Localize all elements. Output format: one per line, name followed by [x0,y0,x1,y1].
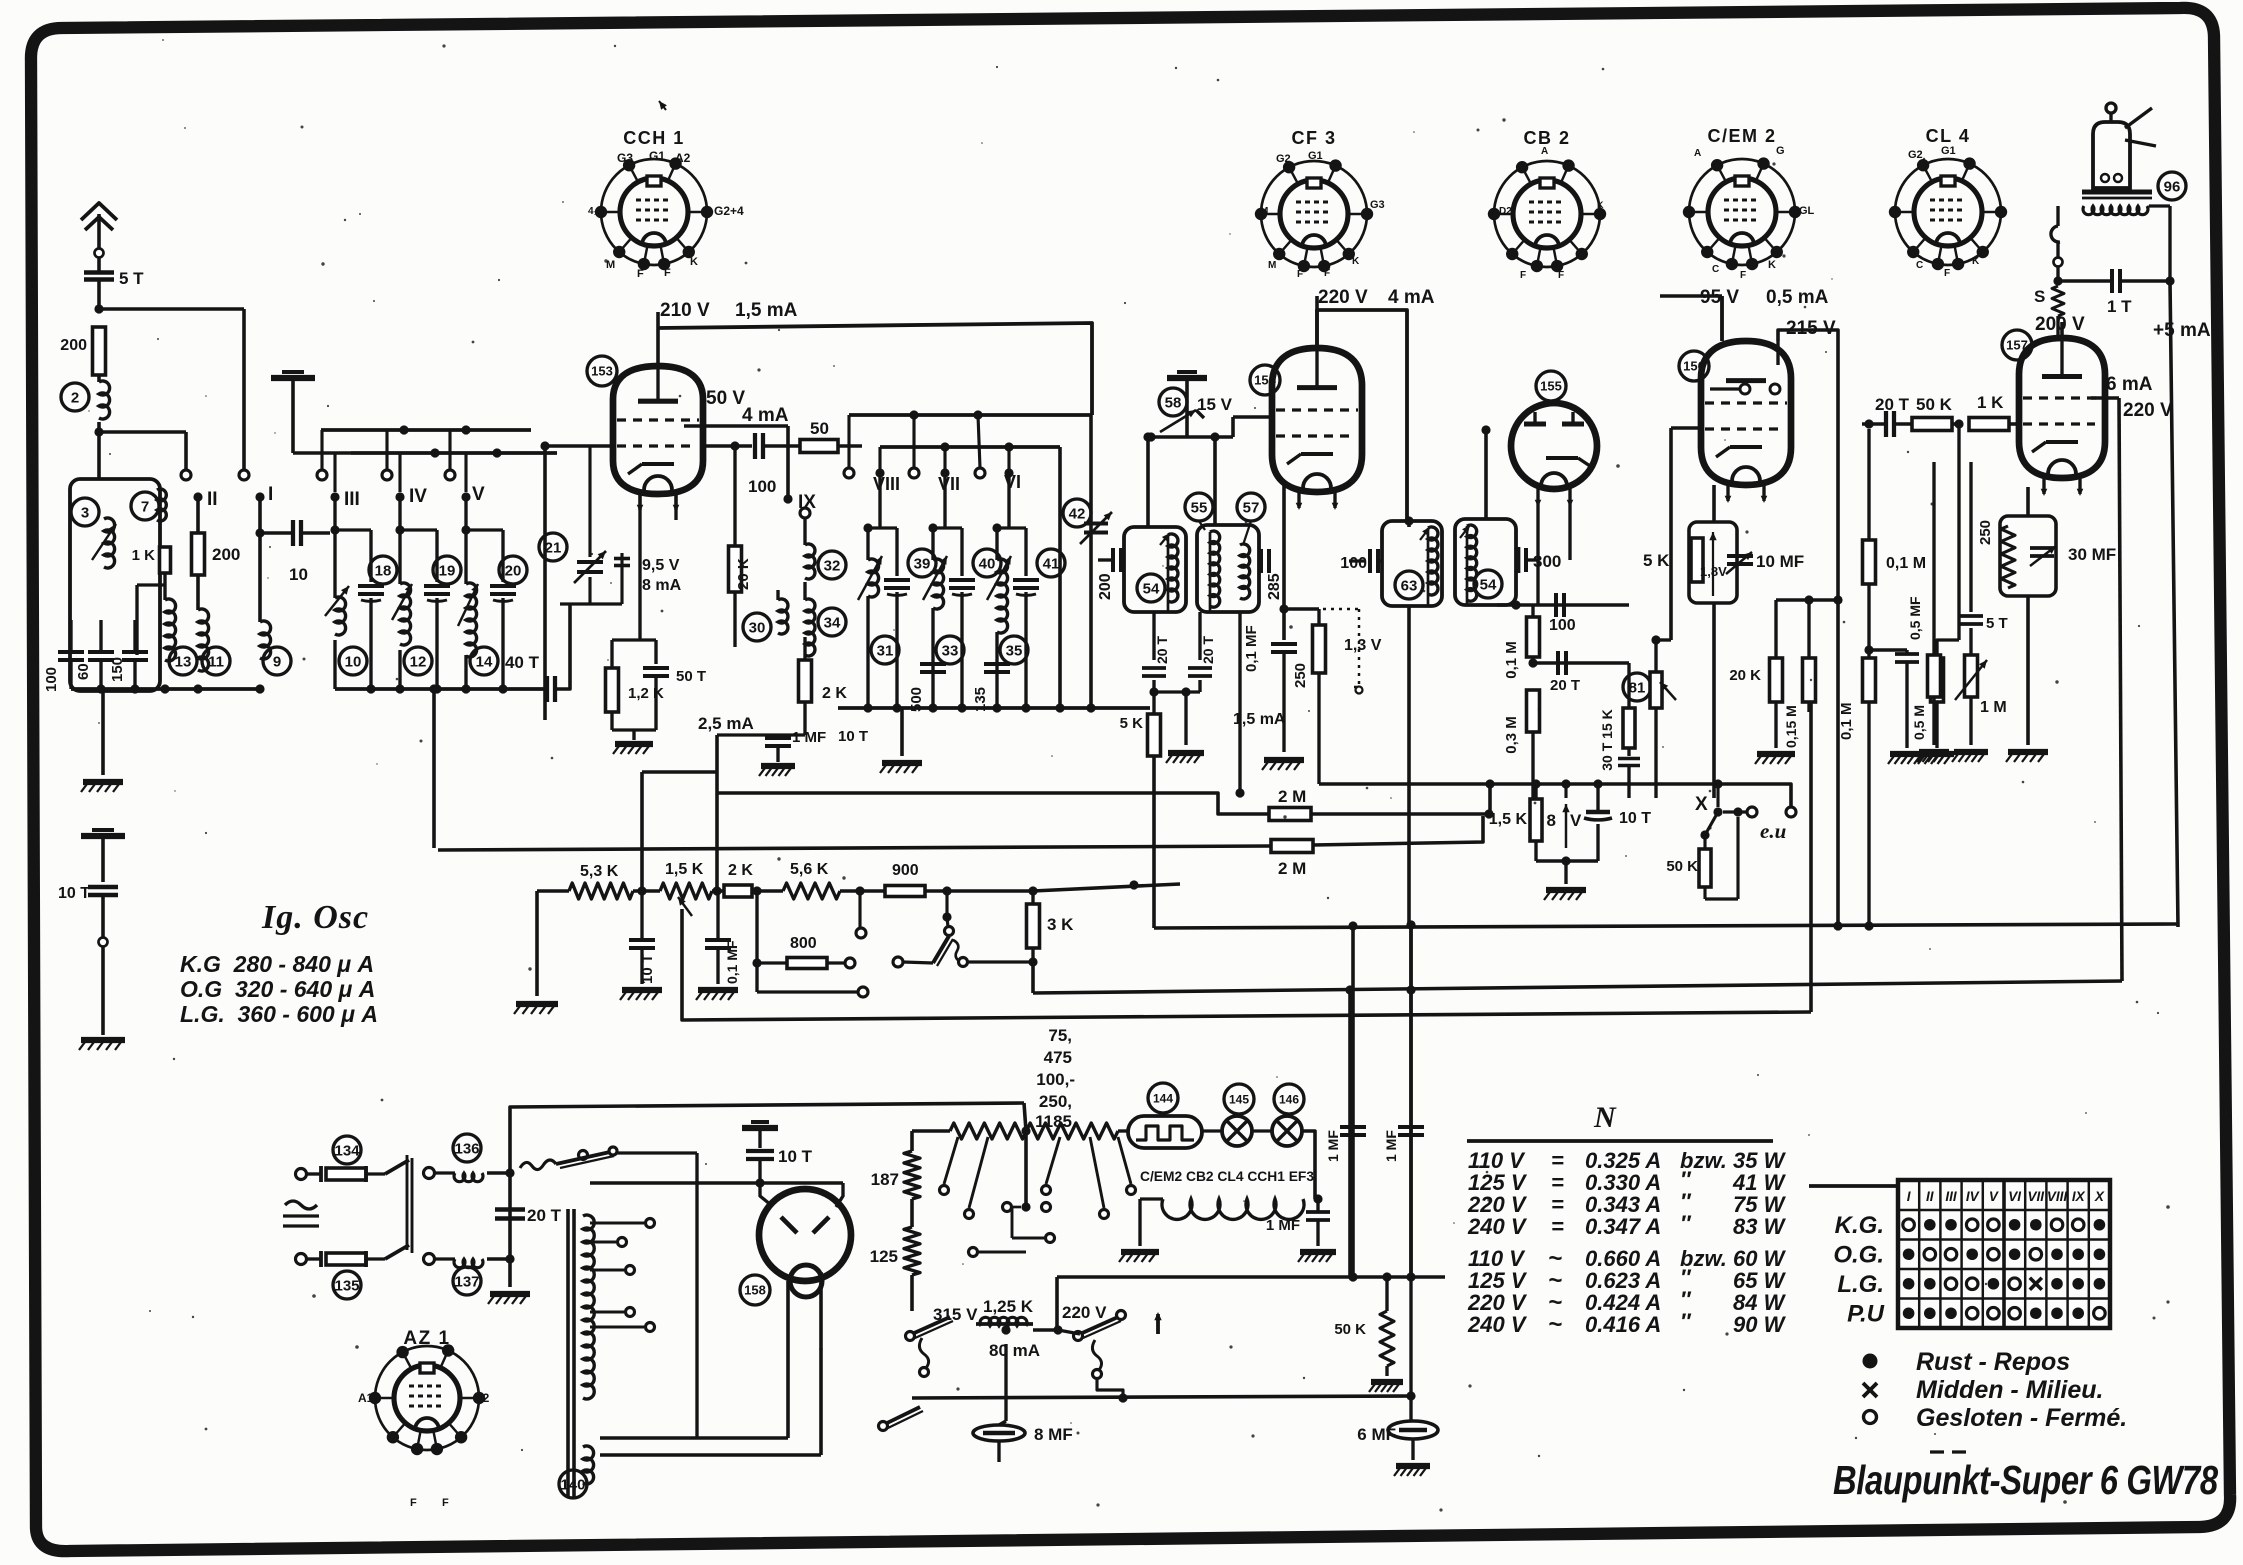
svg-text:0,1 M: 0,1 M [1503,641,1520,679]
svg-text:54: 54 [1143,580,1160,597]
svg-text:IV: IV [409,486,427,507]
svg-text:10 MF: 10 MF [1756,552,1804,571]
svg-text:F: F [637,268,644,280]
svg-text:G1: G1 [1941,145,1956,157]
svg-text:10 T: 10 T [1619,810,1651,827]
svg-text:5 K: 5 K [1643,551,1670,570]
svg-text:5 K: 5 K [1120,715,1144,732]
svg-text:33: 33 [942,642,959,659]
svg-text:A: A [1892,206,1899,216]
svg-text:M: M [1268,260,1276,271]
svg-text:F: F [1324,268,1330,279]
svg-text:K.G 280 - 840 μ A: K.G 280 - 840 μ A [180,951,374,977]
svg-text:136: 136 [454,1140,479,1157]
svg-text:42: 42 [1069,505,1086,522]
svg-text:220 V: 220 V [1318,287,1368,308]
svg-text:8 MF: 8 MF [1034,1425,1073,1444]
svg-text:D2: D2 [1499,206,1512,217]
svg-text:81: 81 [1629,679,1646,696]
svg-text:125: 125 [870,1247,898,1266]
svg-text:50 K: 50 K [1666,858,1698,875]
svg-text:O.G.: O.G. [1833,1241,1884,1268]
svg-text:50 T: 50 T [676,668,706,685]
svg-text:285: 285 [1266,573,1283,600]
svg-text:200: 200 [212,545,240,564]
svg-text:III: III [1945,1189,1957,1204]
svg-text:20: 20 [505,562,522,579]
svg-text:80 mA: 80 mA [989,1341,1040,1360]
svg-text:10 T: 10 T [838,728,868,745]
svg-text:83 W: 83 W [1733,1214,1787,1239]
svg-text:O.G 320 - 640 μ A: O.G 320 - 640 μ A [180,976,375,1002]
svg-text:153: 153 [591,364,613,379]
svg-text:S: S [2034,287,2045,306]
svg-text:GL: GL [1799,205,1815,217]
svg-text:C: C [1916,260,1923,271]
svg-text:220 V: 220 V [2123,400,2173,421]
svg-text:54: 54 [1480,576,1497,593]
svg-text:75,: 75, [1048,1026,1072,1045]
svg-text:150: 150 [109,657,126,682]
svg-text:1,3 V: 1,3 V [1344,637,1382,654]
svg-text:VII: VII [2028,1189,2045,1204]
svg-text:0,15 M: 0,15 M [1783,705,1799,748]
svg-text:58: 58 [1165,394,1182,411]
svg-text:F: F [1944,268,1950,279]
svg-text:240 V: 240 V [1467,1214,1528,1239]
svg-text:K: K [690,256,698,268]
svg-text:15 V: 15 V [1197,395,1233,414]
svg-text:240 V: 240 V [1467,1312,1528,1337]
svg-text:11: 11 [208,653,224,670]
svg-text:L.G.: L.G. [1837,1271,1884,1298]
svg-text:50 K: 50 K [1334,1321,1366,1338]
svg-text:32: 32 [824,557,841,574]
svg-text:250,: 250, [1039,1092,1072,1111]
svg-text:35: 35 [1006,642,1023,659]
svg-text:A2: A2 [474,1391,490,1405]
svg-text:G2: G2 [1276,153,1291,165]
svg-text:1 MF: 1 MF [1266,1217,1300,1234]
svg-text:13: 13 [175,653,192,670]
svg-text:475: 475 [1044,1048,1072,1067]
svg-text:F: F [410,1497,417,1509]
svg-text:0.416 A: 0.416 A [1585,1312,1661,1337]
svg-text:157: 157 [2006,338,2028,353]
svg-text:1 T: 1 T [2107,297,2132,316]
svg-text:A: A [1694,148,1701,159]
svg-text:0,5 mA: 0,5 mA [1766,287,1829,308]
svg-text:″: ″ [1680,1309,1692,1334]
svg-text:A: A [1541,146,1548,157]
svg-text:X: X [2094,1189,2105,1204]
svg-text:1,2 K: 1,2 K [628,685,664,702]
svg-text:M: M [1260,206,1268,217]
svg-text:1,5 K: 1,5 K [1489,811,1528,828]
svg-text:VIII: VIII [873,474,900,494]
svg-text:K: K [1352,256,1360,267]
svg-text:6 mA: 6 mA [2106,374,2153,395]
svg-text:CF 3: CF 3 [1291,128,1336,148]
svg-text:60: 60 [75,663,92,680]
svg-text:5 T: 5 T [1986,615,2008,632]
svg-text:0,3 M: 0,3 M [1503,716,1520,754]
svg-text:F: F [1520,270,1526,281]
svg-text:154: 154 [1254,373,1276,388]
svg-text:+5 mA: +5 mA [2153,320,2211,341]
svg-text:2 M: 2 M [1278,859,1306,878]
svg-text:2 K: 2 K [728,862,753,879]
svg-text:10: 10 [345,653,362,670]
svg-text:P.U: P.U [1847,1300,1885,1327]
svg-text:1 K: 1 K [1977,393,2004,412]
svg-text:C: C [1712,264,1719,275]
svg-text:10 T: 10 T [58,885,90,902]
svg-text:CCH 1: CCH 1 [623,128,685,148]
svg-text:V: V [472,484,485,505]
svg-text:1 K: 1 K [132,547,156,564]
svg-text:0.347 A: 0.347 A [1585,1214,1661,1239]
svg-text:L.G. 360 - 600 μ A: L.G. 360 - 600 μ A [180,1001,378,1027]
svg-text:1 MF: 1 MF [1325,1130,1341,1162]
svg-text:210 V: 210 V [660,300,710,321]
svg-text:N: N [1593,1101,1617,1134]
svg-text:4₁: 4₁ [588,206,598,217]
svg-text:1185: 1185 [1035,1112,1072,1131]
svg-text:″: ″ [1680,1211,1692,1236]
svg-text:90 W: 90 W [1733,1312,1787,1337]
svg-text:250: 250 [1977,520,1994,545]
svg-text:144: 144 [1153,1091,1173,1105]
svg-text:=: = [1551,1214,1564,1239]
svg-text:187: 187 [871,1170,899,1189]
svg-text:100: 100 [43,667,60,692]
svg-text:e.u: e.u [1760,819,1786,843]
svg-text:III: III [344,489,360,510]
svg-text:2 M: 2 M [1278,787,1306,806]
svg-text:0,1 MF: 0,1 MF [1243,625,1260,672]
svg-text:135: 135 [334,1277,359,1294]
svg-text:K: K [1768,259,1776,271]
svg-text:137: 137 [454,1273,479,1290]
svg-text:30 T 15 K: 30 T 15 K [1599,709,1615,770]
svg-text:CL 4: CL 4 [1926,126,1971,146]
svg-text:21: 21 [545,539,562,556]
svg-text:0,1 M: 0,1 M [1886,555,1926,572]
svg-text:G2: G2 [1908,149,1923,161]
svg-text:X: X [1695,794,1708,815]
svg-text:20 T: 20 T [1875,395,1910,414]
svg-text:200: 200 [1097,573,1114,600]
svg-text:50 V: 50 V [706,388,745,409]
svg-text:G: G [1776,145,1785,157]
svg-text:2,5 mA: 2,5 mA [698,714,754,733]
svg-text:900: 900 [892,862,919,879]
svg-text:8 mA: 8 mA [642,577,682,594]
svg-text:0,5 M: 0,5 M [1911,705,1927,740]
svg-text:134: 134 [334,1142,360,1159]
svg-text:145: 145 [1229,1092,1249,1106]
svg-text:A2: A2 [675,151,691,165]
svg-text:F: F [1740,270,1746,281]
svg-text:A1: A1 [358,1391,374,1405]
svg-text:2 K: 2 K [822,685,847,702]
svg-text:Blaupunkt-Super 6 GW78: Blaupunkt-Super 6 GW78 [1833,1456,2218,1502]
svg-text:7: 7 [141,498,149,515]
svg-text:9,5 V: 9,5 V [642,557,680,574]
svg-text:G1: G1 [1308,150,1323,162]
svg-text:A: A [1686,206,1693,216]
svg-text:II: II [1926,1189,1934,1204]
svg-text:V: V [1989,1189,1999,1204]
svg-text:0,1 MF: 0,1 MF [724,940,740,984]
svg-text:F: F [442,1497,449,1509]
svg-text:V: V [1570,811,1582,830]
svg-text:2: 2 [71,389,79,406]
svg-text:10 T: 10 T [778,1147,813,1166]
svg-text:30 MF: 30 MF [2068,545,2116,564]
svg-text:41: 41 [1043,555,1060,572]
svg-text:10: 10 [289,565,308,584]
svg-text:IV: IV [1966,1189,1980,1204]
svg-text:220 V: 220 V [1062,1303,1107,1322]
svg-text:96: 96 [2164,178,2181,195]
svg-text:K.G.: K.G. [1835,1212,1884,1239]
svg-text:200 V: 200 V [2035,314,2085,335]
svg-text:50 K: 50 K [1916,395,1953,414]
svg-text:30: 30 [749,619,766,636]
svg-text:20 T: 20 T [527,1206,562,1225]
svg-text:VI: VI [2008,1189,2021,1204]
svg-text:31: 31 [877,642,894,659]
svg-text:100: 100 [1340,555,1367,572]
svg-text:8: 8 [1547,811,1556,830]
svg-text:57: 57 [1243,499,1260,516]
svg-text:50: 50 [810,419,829,438]
svg-text:1,5 K: 1,5 K [665,861,704,878]
svg-text:1,25 K: 1,25 K [983,1297,1034,1316]
svg-text:4 mA: 4 mA [742,405,789,426]
svg-text:I: I [268,484,273,505]
svg-text:19: 19 [439,562,456,579]
svg-text:9: 9 [273,653,281,670]
svg-text:I: I [1907,1189,1911,1204]
svg-text:1 MF: 1 MF [792,729,826,746]
svg-text:63: 63 [1401,577,1418,594]
svg-text:0,1 M: 0,1 M [1838,702,1855,740]
svg-text:20 K: 20 K [1729,667,1761,684]
svg-text:G3: G3 [617,151,633,165]
svg-text:3 K: 3 K [1047,915,1074,934]
svg-text:1 M: 1 M [1980,699,2007,716]
svg-text:Gesloten - Fermé.: Gesloten - Fermé. [1916,1404,2127,1432]
svg-text:20 T: 20 T [1154,636,1170,664]
svg-text:55: 55 [1191,499,1208,516]
svg-text:Rust - Repos: Rust - Repos [1916,1348,2070,1376]
svg-text:100: 100 [748,477,776,496]
svg-text:800: 800 [790,935,817,952]
svg-text:F: F [664,267,671,279]
svg-text:300: 300 [1533,552,1561,571]
svg-text:20 T: 20 T [1550,677,1580,694]
svg-text:40 T: 40 T [505,653,540,672]
svg-text:VI: VI [1004,472,1021,492]
svg-text:140: 140 [560,1476,585,1493]
svg-text:II: II [207,489,218,510]
svg-text:200: 200 [60,337,87,354]
svg-text:F: F [1558,270,1564,281]
svg-text:5 T: 5 T [119,269,144,288]
svg-text:40: 40 [979,555,996,572]
svg-text:20 T: 20 T [1200,636,1216,664]
svg-text:~: ~ [1548,1311,1562,1338]
svg-text:158: 158 [744,1283,766,1298]
svg-text:0,5 MF: 0,5 MF [1907,596,1923,640]
svg-text:14: 14 [476,653,493,670]
svg-text:Midden - Milieu.: Midden - Milieu. [1916,1376,2104,1404]
svg-text:K: K [1972,256,1980,267]
svg-text:IX: IX [2072,1189,2086,1204]
svg-text:F: F [1297,269,1303,280]
svg-text:1 MF: 1 MF [1383,1130,1399,1162]
svg-text:IX: IX [798,492,816,513]
svg-text:3: 3 [81,504,89,521]
svg-text:20 K: 20 K [735,558,752,590]
svg-text:4 mA: 4 mA [1388,287,1435,308]
svg-text:VII: VII [938,474,960,494]
svg-text:18: 18 [375,562,392,579]
svg-text:C/EM 2: C/EM 2 [1707,126,1776,146]
svg-text:G3: G3 [1370,199,1385,211]
svg-text:146: 146 [1279,1092,1299,1106]
svg-text:K: K [1597,200,1604,210]
svg-text:C/EM2 CB2 CL4 CCH1 EF3: C/EM2 CB2 CL4 CCH1 EF3 [1140,1169,1314,1184]
svg-text:250: 250 [1292,663,1309,688]
svg-text:1,5 mA: 1,5 mA [735,300,798,321]
svg-text:5,3 K: 5,3 K [580,863,619,880]
svg-text:M: M [1597,211,1605,221]
svg-text:5,6 K: 5,6 K [790,861,829,878]
svg-text:100: 100 [1549,617,1576,634]
svg-text:G2+4: G2+4 [714,204,744,218]
svg-text:G1: G1 [649,149,665,163]
svg-text:12: 12 [410,653,427,670]
svg-text:CB 2: CB 2 [1523,128,1570,148]
svg-text:100,-: 100,- [1036,1070,1075,1089]
svg-text:AZ 1: AZ 1 [403,1328,450,1349]
svg-text:156: 156 [1683,359,1705,374]
svg-text:34: 34 [824,614,841,631]
svg-text:VIII: VIII [2047,1189,2068,1204]
svg-text:155: 155 [1540,379,1562,394]
svg-text:Ig. Osc: Ig. Osc [261,899,369,936]
svg-text:39: 39 [914,555,931,572]
